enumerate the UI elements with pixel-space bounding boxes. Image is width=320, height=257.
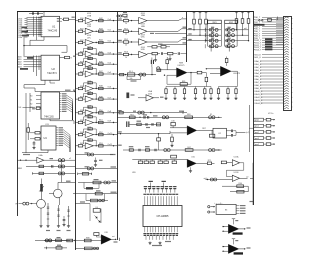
U4 right pin labels [56,127,58,129]
svg-text:U1: U1 [52,24,56,28]
signal wire S2 with jog [147,29,187,32]
transistor Q1 [37,199,46,208]
feedback loop dark box [84,183,86,189]
capacitor C15 [51,165,53,168]
capacitor C5 [32,107,34,110]
trimmer RV1 [41,179,43,185]
resistor R80 vertical [166,60,169,64]
svg-text:CLK: CLK [17,107,22,109]
bus divider rail 1 [75,11,77,250]
feedback network between U8C and U8D [147,46,152,48]
dark GND text block left of U1 [22,27,28,29]
svg-text:R42: R42 [99,18,103,20]
resistor R6 on left bus [27,128,30,132]
relay drive loop [75,203,90,205]
pull-up resistor RN5 [242,11,244,19]
IC U2 [41,55,60,80]
row rr4 boxes [73,193,117,195]
dark net label U17 [234,252,243,254]
svg-text:PB7_T: PB7_T [254,33,261,35]
row rr1 jumpers [75,167,117,169]
svg-text:74HC165: 74HC165 [44,116,54,118]
output resistor R82 [187,72,197,74]
op-amp U18 [101,235,111,245]
input junction U11 [164,75,165,76]
op-amp U8C stage [117,34,147,46]
output network U13 [197,129,213,131]
feedback loop U11 [167,73,191,85]
svg-text:a: a [182,17,183,19]
input net flags left edge [18,18,23,20]
module T1 bottom label [152,245,162,246]
svg-text:4558: 4558 [87,35,91,37]
jumper pair F4 [164,149,167,152]
diode D5 [95,216,98,219]
resistor R84 over U12 [226,57,228,59]
dark label block left of U2 [27,57,34,59]
module T1 tall stubs [150,183,152,189]
wire to right rail [252,163,254,205]
main bottom signal wire [35,240,101,242]
crystal Y1 [126,93,129,99]
net label rows mid [254,54,283,59]
IC U3 [41,92,60,119]
branch to Q2 [61,160,63,182]
long analog bus wire [117,133,170,135]
pull-up resistor RN2 [199,11,201,19]
module T1 upper pins row1 [146,189,175,193]
vcc filter above connector [259,19,261,21]
op-amp U7L stage [75,138,117,148]
svg-text:Ox7: Ox7 [107,97,111,99]
bias branch D3 [68,206,70,225]
test point TP1 [157,67,160,70]
resistor R83 vertical [205,73,207,77]
bus divider rail 2 [117,11,119,240]
svg-text:1k: 1k [125,44,127,46]
signal wire S5 [160,43,187,45]
schematic sheet top border [17,11,254,13]
jumper JP3 [58,172,61,175]
net label rows dense [255,60,283,105]
svg-text:1k: 1k [125,57,127,59]
op-amp U7G stage [75,81,117,91]
ground under U10 [190,167,192,169]
svg-text:n1: n1 [69,158,71,160]
wide dark net label [254,24,265,26]
cap C40 with ground [95,158,97,160]
svg-text:U8B: U8B [141,26,146,28]
capacitor C31 [209,134,214,137]
wire U4 bottom route [22,150,48,153]
op-amp U8A stage [117,13,147,25]
svg-text:PB13_T: PB13_T [254,47,262,49]
svg-text:74HC245: 74HC245 [47,30,57,32]
svg-text:Ox1: Ox1 [107,29,111,31]
svg-text:PB2_T: PB2_T [254,22,261,24]
svg-text:C30: C30 [171,121,174,123]
svg-text:U15B: U15B [234,172,239,174]
svg-text:LM1875: LM1875 [233,73,240,75]
output filter chain after U8D [147,53,152,55]
op-amp U7K stage [75,127,117,137]
relay K2 box [213,128,226,138]
op-amp U7F stage [75,67,117,77]
bus divider rail right [253,11,255,205]
jumper pair with arrow [209,116,212,119]
feedback U15A to U15B [227,163,244,177]
ladder tails down [210,46,212,51]
svg-text:LM1875: LM1875 [178,65,185,67]
svg-text:m0: m0 [244,28,247,30]
output arrow U18 [112,238,117,240]
svg-text:R52: R52 [99,132,103,134]
wire U1 lower route [30,37,44,46]
op-amp U15A [234,156,239,159]
connector J1 shell [284,17,292,111]
row net RB1 [18,168,23,170]
svg-text:U18: U18 [104,232,107,234]
op-amp U8D stage [117,47,147,59]
svg-text:PB9_T: PB9_T [254,38,261,40]
input flags U3 [30,95,33,97]
op-amp U7A stage [75,13,117,23]
svg-text:SW2: SW2 [229,22,233,24]
pull-up resistor RN6 [248,11,250,19]
row rr3 network [78,182,117,184]
svg-text:K4: K4 [96,207,98,209]
op-amp U7E stage [75,57,117,67]
extra connector stub wires [276,19,283,45]
driver row group PWM [254,118,275,146]
relay K3 box [216,204,236,214]
resistor R66 vertical [158,134,160,138]
schematic sheet left border [17,11,19,216]
resistor network into U4 [35,132,40,134]
capacitor C10 polarized [151,60,152,64]
row wire mux A [187,29,208,31]
wire fan U4 to rail [63,130,70,153]
svg-text:U8D: U8D [141,49,146,51]
bus divider rail 3 [186,11,188,62]
svg-text:R52: R52 [124,39,128,41]
jumper JP4 [23,202,26,205]
svg-text:U10: U10 [191,157,194,159]
input net flags for U2 [17,56,22,59]
svg-text:R98: R98 [86,237,89,239]
bias box U18 input [94,233,99,236]
svg-text:4558: 4558 [141,47,145,49]
U1 right pin stubs [60,18,63,20]
svg-text:PB11_T: PB11_T [254,43,262,45]
module T1 lower pin labels [143,233,178,236]
K3 right pin labels [236,205,239,207]
row net RB2 [33,172,76,174]
op-amp U13 [187,126,197,135]
bottom row R20 network [44,239,70,241]
bias branch D2 [58,205,60,225]
svg-text:4558: 4558 [87,24,91,26]
capacitor C32 pair [226,130,231,132]
row wire mux C [187,40,208,42]
net label row w2 [230,191,248,193]
row rr5 loop network [86,200,108,202]
svg-text:PB4_T: PB4_T [254,26,261,28]
vcc stub U17 [233,239,235,245]
resistor R67 [185,149,193,152]
U3 right pin labels [60,93,62,95]
jumper pair row F2 [162,116,165,119]
svg-text:4558: 4558 [141,24,145,26]
svg-text:SW1: SW1 [212,22,216,24]
capacitor C41 ground [63,216,65,219]
module T1 body [143,206,182,227]
arrow into Q1 [30,203,33,205]
svg-text:o2: o2 [246,177,248,179]
svg-text:SG0_K: SG0_K [254,54,261,56]
op-amp U12 power stage [220,66,231,76]
svg-text:R51: R51 [124,28,128,30]
jumper JP1 [58,159,61,162]
IC U1 [41,16,60,37]
svg-text:U7C: U7C [87,37,92,39]
op-amp U9A [148,90,153,93]
signal row y112 [117,112,187,114]
svg-text:PB6_T: PB6_T [254,31,261,33]
op-amp U7J stage [75,115,117,125]
svg-text:Ox11: Ox11 [107,144,112,146]
jumper JP10 [45,239,48,242]
svg-text:VCCx: VCCx [268,113,274,115]
svg-text:R71: R71 [208,160,211,162]
stack top rail [166,86,211,88]
right rail stub [248,105,250,152]
svg-text:PB8_T: PB8_T [254,36,261,38]
svg-text:R67: R67 [187,147,190,149]
rail tick marks RN tops [193,12,196,14]
analog switch ladder SW2 [225,20,237,48]
vcc stub U16 [233,219,235,225]
svg-text:U7B: U7B [87,26,92,28]
pull-up resistor RN4 [236,11,238,19]
row wire mux B [187,34,208,36]
svg-text:PB5_T: PB5_T [254,29,261,31]
jumper JP2 [58,165,61,168]
resistor R11 [39,172,44,174]
module T1 upper pin labels row2 [143,194,178,195]
svg-text:U8C: U8C [141,37,146,39]
ground stub filter [155,55,157,59]
svg-text:4558: 4558 [141,34,145,36]
svg-text:SG1_K: SG1_K [254,57,261,59]
net label row w1 [222,185,248,187]
branch base labels [46,230,50,231]
wire fan U3 to rail [67,95,73,120]
input network U15B [206,179,233,181]
wire bus into U2 [26,56,41,58]
capacitor C6 with ground [33,141,35,142]
bottom row R21 network [44,247,67,249]
module T1 lower pins row2 [146,236,173,240]
jumper pair arrow F4 [209,149,212,152]
module T1 upper pin labels row1 [144,186,177,189]
capacitor C20 polarized [126,121,127,127]
svg-text:PB0_T: PB0_T [254,17,261,19]
svg-text:=(x): =(x) [203,178,207,180]
resistor R2 on U2 pin [60,57,65,59]
svg-text:4558: 4558 [148,93,152,95]
resistor R1 on U1 pin 19 [62,18,64,20]
connector J1 pins [284,17,289,109]
net flag OSC left edge [17,107,22,109]
pins into K3 [211,206,216,208]
svg-text:K2: K2 [218,133,220,135]
row rr2 resistor [78,173,92,175]
ground cap row [214,202,223,205]
module T1 upper pins row2 [145,196,177,205]
input flag bottom left [16,204,19,206]
svg-text:PB14_T: PB14_T [254,49,262,51]
pull-up resistor RN3 [205,11,207,19]
lower row R99 [75,247,99,249]
svg-text:R90: R90 [238,183,241,185]
svg-text:PB12_T: PB12_T [254,45,262,47]
op-amp U15B [234,172,239,174]
test points top middle [117,15,119,17]
output wire U12 [231,70,237,72]
svg-text:R61: R61 [130,114,133,116]
op-amp U17 output driver [228,244,239,253]
input flag U15A [221,161,226,164]
resistor R5 [36,107,40,110]
svg-text:1k: 1k [125,23,127,25]
svg-text:R63: R63 [187,114,190,116]
transistor Q2 [54,189,63,198]
mixer chain row [117,74,156,76]
decoupling caps C1 C2 over U1 [29,13,43,15]
resistor R98 [84,239,91,242]
svg-text:Ox2: Ox2 [107,41,111,43]
svg-text:FL1: FL1 [129,71,132,73]
svg-text:K1: K1 [210,114,212,116]
row rr0 jumpers [75,154,113,156]
svg-text:PB10_T: PB10_T [254,40,262,42]
svg-text:R47: R47 [99,71,103,73]
wire U3 bottom [50,119,74,124]
module T1 lower pins row1 [145,227,177,233]
op-amp U7B stage [75,24,117,34]
output U15B [240,177,248,179]
signal wire S1 with jog [147,19,187,21]
svg-text:DI9b: DI9b [18,37,23,39]
svg-text:4558: 4558 [141,13,145,15]
analog switch ladder SW1 [205,20,221,48]
signal wire S4 with jog [147,39,187,42]
IC U4 [41,126,56,150]
op-amp U10 comparator [187,159,196,167]
net label rows to connector upper [254,17,283,51]
resistor R71 output [196,162,207,164]
svg-text:U2: U2 [51,67,55,71]
svg-text:74HC574: 74HC574 [47,73,57,75]
svg-text:R51: R51 [99,120,103,122]
connector J1 label [268,113,274,115]
op-amp U8B stage [117,24,147,36]
output wire to net flag [236,131,246,133]
net flag rows on divider 2 [118,110,122,111]
filter chain F2 [117,116,161,118]
resistor R97 [67,239,73,242]
feedback loop under FL1 [127,76,141,80]
signal wire S3 [155,32,187,34]
op-amp U7D stage [75,47,117,57]
module T1 ground pins [149,242,151,243]
diode D6 [98,220,101,223]
bias branch D1 [47,203,49,225]
cap rail into U10 [132,159,187,161]
op-amp U7H stage [75,92,117,102]
connector J1 right stubs [291,19,292,107]
pull-up resistor RN1 [193,11,195,19]
wire bus into U1 [27,17,42,19]
dark net label U16 [233,232,243,234]
resistor R63 [185,116,193,119]
op-amp U6A [39,154,44,157]
svg-text:R81: R81 [182,81,186,83]
op-amp U16 output driver [228,224,239,233]
wire U2 to rail [24,80,45,88]
resistor R70 [171,155,177,158]
capacitor C30 input [171,122,175,125]
op-amp U7I stage [75,105,117,115]
svg-text:S2: S2 [30,103,32,105]
op-amp U7C stage [75,35,117,45]
filter chain F4 long row [123,149,222,151]
svg-text:1k: 1k [125,34,127,36]
op-amp U11 power stage [179,62,184,64]
emitter branch Q1 ground [40,208,42,224]
resistor R86 to ground [171,134,173,137]
divider resistor stacks to ground [164,87,167,100]
resistor R10 [39,165,44,167]
svg-text:R87: R87 [202,128,205,130]
svg-text:4558: 4558 [87,13,91,15]
svg-text:S1: S1 [30,99,32,101]
isolator box column [265,38,272,50]
svg-text:CH-A0805: CH-A0805 [156,214,169,218]
